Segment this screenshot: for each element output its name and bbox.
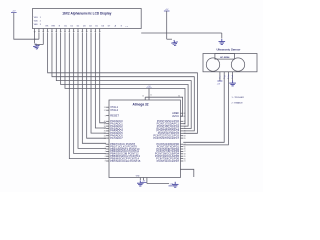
svg-text:11: 11 — [150, 95, 152, 97]
svg-text:Atmega 32: Atmega 32 — [132, 103, 148, 107]
svg-text:D7: D7 — [108, 26, 110, 28]
svg-text:10: 10 — [142, 95, 144, 97]
svg-text:16X2 Alphanumeric LCD Display: 16X2 Alphanumeric LCD Display — [62, 11, 111, 15]
svg-text:30: 30 — [178, 96, 180, 98]
svg-text:13: 13 — [104, 107, 106, 109]
svg-text:HC-SR04: HC-SR04 — [220, 56, 230, 59]
svg-text:9: 9 — [105, 115, 106, 117]
svg-text:8: 8 — [105, 161, 106, 163]
svg-text:PB7/SCK/OC2A PCINT15: PB7/SCK/OC2A PCINT15 — [110, 159, 141, 163]
svg-text:3: 3 — [40, 24, 41, 26]
svg-text:2: 2 — [40, 20, 41, 22]
svg-text:D3: D3 — [83, 26, 85, 28]
svg-text:1: 1 — [40, 17, 41, 19]
svg-text:RESET: RESET — [110, 113, 119, 117]
svg-text:D2: D2 — [77, 26, 79, 28]
svg-text:c c: c c — [126, 26, 128, 28]
svg-text:VDD: VDD — [34, 20, 39, 22]
svg-text:21: 21 — [184, 161, 186, 163]
svg-text:PA7/ADC7: PA7/ADC7 — [110, 136, 123, 140]
svg-text:Ultrasonic Sensor: Ultrasonic Sensor — [217, 48, 242, 52]
svg-text:PCINT31/OC2/PD7: PCINT31/OC2/PD7 — [157, 159, 180, 163]
svg-text:D6: D6 — [102, 26, 104, 28]
svg-text:D4: D4 — [89, 26, 91, 28]
svg-text:AVCC: AVCC — [172, 114, 179, 118]
svg-text:PCINT23/TOSC2/PC7: PCINT23/TOSC2/PC7 — [153, 136, 179, 140]
svg-text:D0: D0 — [64, 26, 66, 28]
svg-text:29: 29 — [184, 138, 186, 140]
svg-text:D1: D1 — [71, 26, 73, 28]
svg-text:1 : TRIGGER: 1 : TRIGGER — [232, 97, 245, 99]
svg-text:12: 12 — [104, 110, 106, 112]
svg-text:XTAL2: XTAL2 — [110, 108, 118, 112]
svg-text:2 : ENABLE: 2 : ENABLE — [232, 102, 244, 105]
svg-text:D5: D5 — [95, 26, 97, 28]
svg-text:RW: RW — [52, 26, 55, 28]
